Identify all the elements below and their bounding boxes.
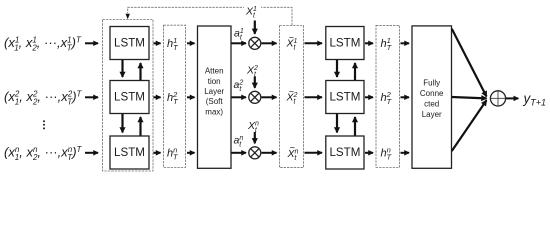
svg-text:(xn1, xn2, ···,xnT)T: (xn1, xn2, ···,xnT)T: [4, 144, 83, 162]
arrow X-tilde to decoder row3: [305, 152, 323, 154]
arrow decoder to h2 column row2: [365, 96, 373, 98]
arrow h to attention row2: [187, 96, 195, 98]
svg-text:~: ~: [290, 143, 295, 153]
label h2_T^n: [381, 145, 393, 161]
multiply node row1: [249, 37, 261, 49]
svg-text:max): max): [205, 107, 223, 116]
svg-text:LSTM: LSTM: [114, 91, 145, 104]
svg-text:~: ~: [289, 32, 294, 42]
svg-text:hnT: hnT: [381, 145, 393, 161]
driving input X_t^1 (white mask over dashed line): [244, 3, 261, 19]
svg-text:LSTM: LSTM: [114, 146, 145, 159]
arrow X_t^n down row3: [254, 132, 256, 143]
fan line FC top to sum: [452, 29, 487, 97]
LSTM decoder box 2: [326, 81, 364, 114]
LSTM decoder box 1: [326, 27, 364, 60]
X-tilde column box: [280, 26, 304, 168]
arrow encoder to h column row1: [154, 42, 161, 44]
input label row 2: [4, 89, 83, 107]
label h2_T^2: [381, 90, 393, 106]
svg-text:(x11, x12, ···,x1T)T: (x11, x12, ···,x1T)T: [4, 35, 82, 53]
arrows between encoder LSTM 2-3: [121, 114, 123, 133]
label h_T^1: [167, 36, 179, 52]
svg-text:~: ~: [289, 86, 294, 96]
output arrow: [506, 97, 518, 99]
svg-text:Layer: Layer: [204, 87, 224, 96]
svg-text:LSTM: LSTM: [329, 37, 360, 50]
arrow multiply to X-tilde row1: [262, 42, 277, 44]
h2 column box: [376, 25, 400, 167]
svg-text:Conne: Conne: [420, 89, 444, 98]
h column box 1: [164, 25, 186, 167]
sum node: [490, 91, 505, 106]
arrow X_t^1 down row1: [254, 21, 256, 34]
svg-text:(x21, x22, ···,x2T)T: (x21, x22, ···,x2T)T: [4, 89, 83, 107]
multiply node row3: [249, 147, 261, 159]
svg-text:Layer: Layer: [422, 110, 442, 119]
arrow h2 to FC row1: [401, 42, 410, 44]
svg-text:h1T: h1T: [381, 36, 393, 52]
LSTM encoder box 1: [110, 27, 149, 60]
multiply node row2: [249, 91, 261, 103]
LSTM encoder box 3: [110, 136, 149, 169]
input label row 3: [4, 144, 83, 162]
arrow h to attention row3: [187, 152, 195, 154]
driving input X_t^2: [246, 64, 258, 78]
fully connected layer box: [412, 26, 452, 168]
svg-text:(Soft: (Soft: [206, 97, 224, 106]
arrow encoder to h column row2: [154, 96, 161, 98]
arrows between encoder LSTM 1-2: [121, 60, 123, 77]
arrow encoder to h column row3: [154, 152, 161, 154]
svg-text:LSTM: LSTM: [329, 146, 360, 159]
arrows between decoder LSTM 2-3: [336, 114, 338, 133]
arrow h2 to FC row2: [401, 96, 410, 98]
vdots between input rows: [43, 120, 45, 129]
arrow X-tilde to decoder row1: [305, 42, 323, 44]
svg-text:hnT: hnT: [167, 145, 179, 161]
label h2_T^1: [381, 36, 393, 52]
arrow decoder to h2 column row1: [365, 42, 373, 44]
arrow attention to multiply row3: [232, 152, 247, 154]
svg-text:tion: tion: [208, 77, 221, 86]
LSTM decoder box 3: [326, 136, 364, 169]
label X-tilde_t^2: [286, 86, 298, 105]
svg-text:Atten: Atten: [205, 67, 224, 76]
label X-tilde_t^n: [287, 143, 299, 162]
svg-text:h1T: h1T: [167, 36, 179, 52]
attention weight a_t^1: [234, 27, 244, 41]
arrow decoder to h2 column row3: [365, 152, 373, 154]
arrow multiply to X-tilde row3: [262, 152, 277, 154]
attention weight a_t^2: [234, 79, 244, 93]
encoder container: [103, 20, 154, 172]
attention layer box: [198, 26, 232, 168]
svg-text:LSTM: LSTM: [114, 37, 145, 50]
label X-tilde_t^1: [286, 32, 298, 51]
arrow multiply to X-tilde row2: [262, 96, 277, 98]
svg-text:h2T: h2T: [381, 90, 393, 106]
feedback dashed line from X-tilde box top to encoder container: [128, 7, 292, 25]
arrow attention to multiply row1: [232, 42, 247, 44]
arrows between decoder LSTM 1-2: [336, 60, 338, 77]
attention weight a_t^n: [234, 135, 244, 149]
arrow X_t^2 down row2: [254, 77, 256, 88]
arrow h to attention row1: [187, 42, 195, 44]
arrow input row2: [85, 96, 98, 98]
output label y_T+1: [523, 91, 547, 108]
arrow X-tilde to decoder row2: [305, 96, 323, 98]
arrow attention to multiply row2: [232, 96, 247, 98]
arrow input row1: [85, 42, 98, 44]
arrow input row3: [85, 152, 98, 154]
fan line FC middle to sum: [452, 97, 487, 98]
label h_T^2: [167, 90, 179, 106]
fan line FC bottom to sum: [452, 100, 487, 151]
svg-text:Fully: Fully: [423, 79, 440, 88]
label h_T^n: [167, 145, 179, 161]
arrow h2 to FC row3: [401, 152, 410, 154]
svg-text:h2T: h2T: [167, 90, 179, 106]
driving input X_t^n: [247, 120, 259, 134]
LSTM encoder box 2: [110, 81, 149, 114]
input label row 1: [4, 35, 82, 53]
svg-text:cted: cted: [424, 100, 439, 109]
svg-text:LSTM: LSTM: [329, 91, 360, 104]
